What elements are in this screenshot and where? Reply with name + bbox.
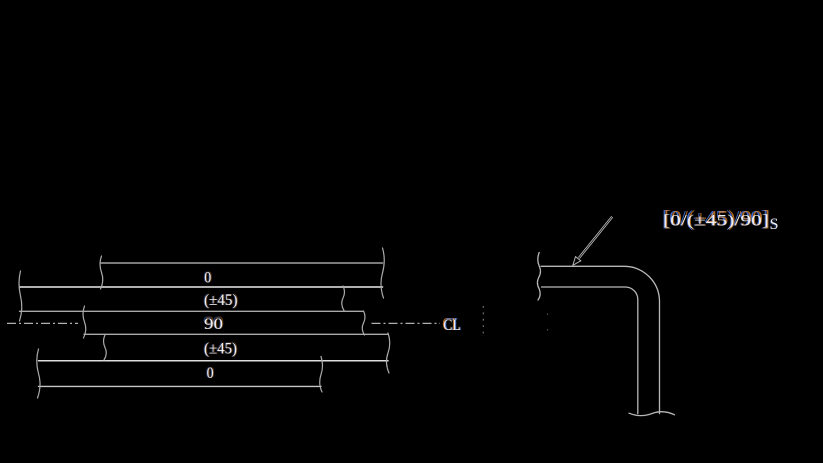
ply label 0 (bottom) xyxy=(206,363,215,382)
ply +-45 upper right break line xyxy=(342,286,345,311)
ply +-45 lower right break line xyxy=(386,333,389,373)
centerline left dash-dot segment xyxy=(7,322,78,324)
centerline label CL xyxy=(442,314,462,334)
ply boundary line F (bottom of lower ply 0) xyxy=(39,385,322,387)
ply boundary line B xyxy=(20,286,383,288)
ply 90 right break line xyxy=(362,311,365,335)
centerline right dash-dot segment xyxy=(372,322,441,324)
faint vertical dotted mark near 90 ply centerline xyxy=(482,306,484,338)
ply boundary line C xyxy=(20,310,364,312)
angle section left break line xyxy=(537,253,540,301)
laminate code label [0/(+-45)/90]s xyxy=(662,206,779,234)
leader arrow line (hollow double stroke) xyxy=(578,216,613,258)
svg-text:S: S xyxy=(770,216,779,233)
angle section inner surface (bottom line of flange, inner bend, inner vertical) xyxy=(542,287,638,414)
svg-text:0: 0 xyxy=(207,365,214,382)
faint dots right of centerline break xyxy=(547,314,549,331)
ply boundary line D xyxy=(84,333,388,335)
svg-text:(±45): (±45) xyxy=(204,292,238,309)
svg-text:CL: CL xyxy=(443,317,461,334)
ply boundary line E xyxy=(39,360,389,362)
ply label 0 (top) xyxy=(203,267,212,286)
angle section bottom break line xyxy=(629,412,675,416)
svg-text:[0/(±45)/90]: [0/(±45)/90] xyxy=(663,213,769,230)
svg-text:0: 0 xyxy=(204,269,211,286)
ply boundary line A (top of ply 0) xyxy=(101,262,383,264)
ply +-45 lower left break line xyxy=(104,335,107,360)
ply 0 left break line xyxy=(100,256,103,289)
ply label (+-45) upper xyxy=(203,290,239,309)
ply label 90 xyxy=(203,314,224,334)
svg-text:90: 90 xyxy=(204,316,223,333)
lower ply 0 right break line xyxy=(320,357,323,393)
ply label (+-45) lower xyxy=(203,339,238,358)
angle section outer surface (top line, outer bend, outer vertical) xyxy=(541,266,660,413)
ply +-45 upper left break line xyxy=(19,271,22,321)
ply 0 right break line xyxy=(381,248,384,298)
leader arrowhead (open outline) xyxy=(573,257,581,266)
lower ply 0 left break line xyxy=(37,349,40,398)
ply 90 left break line xyxy=(83,306,86,338)
svg-text:(±45): (±45) xyxy=(204,341,237,358)
